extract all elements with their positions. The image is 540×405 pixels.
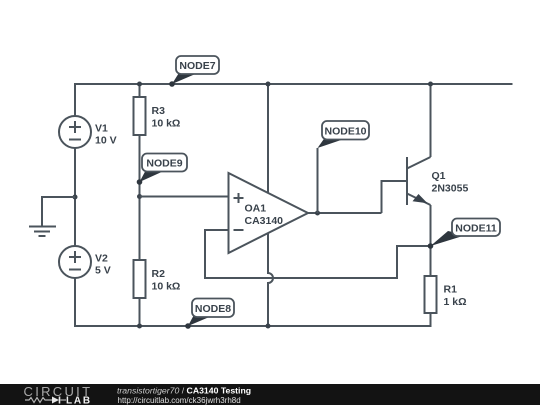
svg-text:10 V: 10 V	[95, 135, 117, 147]
wire top rail NODE7	[74, 83, 513, 85]
label R1 1 kOhm	[444, 284, 467, 309]
wire inverting input feedback	[205, 230, 431, 278]
wire R2 bottom	[139, 298, 141, 326]
node NODE8	[185, 299, 234, 329]
svg-text:10 kΩ: 10 kΩ	[152, 118, 181, 130]
wire Q1 collector to top rail	[430, 84, 432, 157]
junction op-amp V- bottom rail	[266, 324, 271, 329]
svg-text:LAB: LAB	[66, 396, 92, 405]
svg-text:Q1: Q1	[432, 170, 446, 182]
svg-text:R3: R3	[152, 105, 166, 117]
junction R2 bottom rail	[137, 324, 142, 329]
wire V2 bottom	[74, 278, 76, 327]
circuitlab logo	[24, 384, 93, 405]
ground	[29, 227, 56, 237]
label R2 10 kOhm	[152, 268, 181, 293]
label OA1 CA3140	[245, 203, 284, 228]
node NODE9	[137, 154, 187, 185]
svg-text:NODE10: NODE10	[324, 126, 366, 138]
svg-text:V1: V1	[95, 123, 108, 135]
wire to ground	[42, 197, 75, 226]
svg-text:V2: V2	[95, 253, 108, 265]
label V2 5 V	[95, 253, 111, 277]
svg-text:NODE9: NODE9	[146, 158, 182, 170]
svg-text:1 kΩ: 1 kΩ	[444, 296, 467, 308]
svg-text:10 kΩ: 10 kΩ	[152, 281, 181, 293]
wire R3 to R2	[139, 135, 141, 260]
svg-text:OA1: OA1	[245, 203, 267, 215]
resistor R1	[425, 276, 437, 313]
junction ground tap	[73, 195, 78, 200]
wire bottom rail NODE8	[74, 325, 432, 327]
voltage source V2	[59, 246, 91, 278]
wire op-amp V- pin to bottom rail with hop	[268, 233, 273, 326]
wire V1 top	[74, 84, 76, 116]
svg-text:5 V: 5 V	[95, 265, 111, 277]
node NODE10	[318, 121, 370, 213]
resistor R3	[134, 97, 146, 135]
transistor Q1	[407, 157, 431, 205]
wire op-amp V+ pin to top rail	[267, 84, 269, 193]
op-amp minus input symbol	[234, 229, 244, 231]
svg-text:NODE8: NODE8	[195, 303, 231, 315]
junction op-amp V+ top rail	[266, 82, 271, 87]
label V1 10 V	[95, 123, 117, 147]
wire V1 to V2	[74, 148, 76, 246]
junction noninverting tap	[137, 194, 142, 199]
svg-text:2N3055: 2N3055	[432, 183, 469, 195]
svg-text:NODE11: NODE11	[455, 223, 497, 235]
junction R3 top rail	[137, 82, 142, 87]
svg-text:transistortiger70 / CA3140 Tes: transistortiger70 / CA3140 Testing	[117, 386, 251, 396]
resistor R2	[134, 260, 146, 298]
wire op-amp output	[308, 212, 382, 214]
footer bar	[0, 384, 540, 405]
wire emitter to R1	[430, 246, 432, 276]
op-amp OA1	[229, 173, 309, 253]
wire Q1 emitter down	[430, 205, 432, 246]
voltage source V1	[59, 116, 91, 148]
label R3 10 kOhm	[152, 105, 181, 130]
junction emitter NODE11	[428, 244, 433, 249]
node NODE7	[169, 56, 219, 87]
svg-text:R1: R1	[444, 284, 458, 296]
node NODE11	[428, 219, 500, 249]
svg-text:NODE7: NODE7	[179, 60, 215, 72]
wire R3 top	[139, 84, 141, 97]
svg-text:CA3140: CA3140	[245, 215, 284, 227]
label Q1 2N3055	[432, 170, 469, 195]
junction output NODE10	[315, 211, 320, 216]
op-amp plus input symbol	[234, 193, 244, 203]
wire to op-amp + input	[140, 196, 229, 198]
junction collector top rail	[428, 82, 433, 87]
svg-text:R2: R2	[152, 268, 166, 280]
wire R1 bottom	[430, 313, 432, 326]
svg-text:http://circuitlab.com/ck36jwrh: http://circuitlab.com/ck36jwrh3rh8d	[118, 396, 241, 405]
wire output to base	[382, 181, 407, 213]
